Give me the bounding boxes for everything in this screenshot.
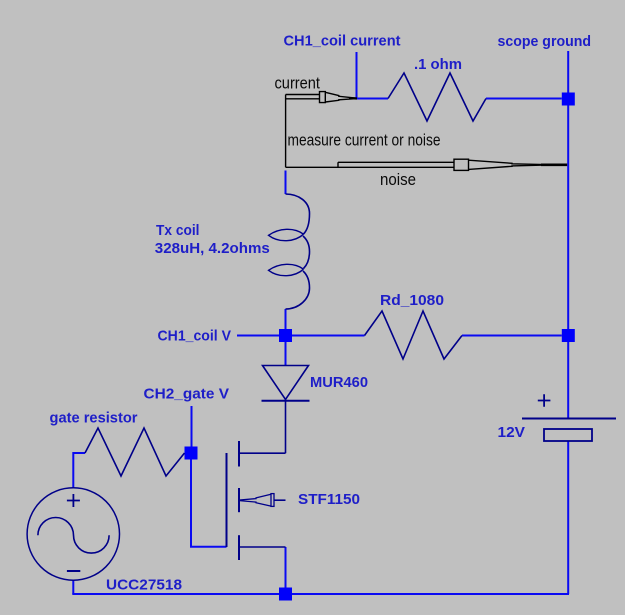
svg-text:MUR460: MUR460 (310, 374, 368, 391)
svg-text:.1 ohm: .1 ohm (414, 56, 462, 73)
svg-text:noise: noise (380, 171, 416, 189)
svg-text:scope ground: scope ground (498, 33, 592, 50)
svg-text:CH2_gate V: CH2_gate V (144, 386, 230, 403)
svg-text:Rd_1080: Rd_1080 (380, 292, 444, 309)
svg-text:328uH, 4.2ohms: 328uH, 4.2ohms (155, 240, 270, 257)
svg-text:Tx coil: Tx coil (156, 222, 200, 239)
svg-text:12V: 12V (498, 424, 526, 441)
svg-text:UCC27518: UCC27518 (106, 576, 182, 593)
svg-text:measure current or noise: measure current or noise (288, 132, 441, 150)
svg-text:CH1_coil current: CH1_coil current (284, 33, 401, 50)
svg-text:STF1150: STF1150 (298, 491, 360, 508)
svg-text:gate resistor: gate resistor (50, 409, 138, 426)
svg-text:current: current (275, 75, 321, 93)
svg-text:CH1_coil V: CH1_coil V (158, 327, 232, 344)
